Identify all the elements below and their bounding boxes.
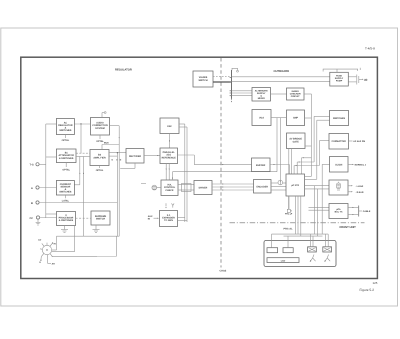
svg-text:AV BRIDGE: AV BRIDGE bbox=[289, 138, 302, 141]
box11 X-1 EXPANDER bbox=[160, 211, 178, 227]
rotary switch circle bbox=[40, 242, 53, 260]
svg-text:AF ALR PM: AF ALR PM bbox=[353, 140, 365, 143]
ground under C2 bbox=[36, 219, 41, 225]
wire buffer right elbow into uP top bbox=[270, 164, 289, 174]
wire enclosure vertical x117.4 bbox=[116, 153, 118, 237]
wire box14 down to uP right bbox=[291, 149, 293, 175]
box14 AV BRIDGE GATE bbox=[287, 133, 306, 149]
wire rotary long lower horizontal bbox=[52, 236, 117, 256]
wire vertical x81 bbox=[80, 124, 82, 153]
uP bottom wire to front bus 2 bbox=[297, 196, 299, 234]
svg-text:CONTROL: CONTROL bbox=[164, 186, 176, 189]
svg-text:AUDIO: AUDIO bbox=[96, 121, 104, 124]
bus vertical x317.7 bbox=[316, 120, 318, 179]
svg-text:REGULATOR: REGULATOR bbox=[58, 124, 73, 127]
junction dot bbox=[80, 123, 81, 124]
box10 VOL CONTROL CHECK bbox=[161, 180, 178, 196]
box9 PARALLEL ADJ REFERENCE bbox=[160, 148, 178, 164]
svg-text:EXPANDER: EXPANDER bbox=[162, 217, 175, 220]
uP bottom wire to front bus 1 bbox=[294, 196, 296, 234]
svg-text:T-4/5-8: T-4/5-8 bbox=[365, 46, 375, 50]
bus vertical x317.3 down to front bbox=[316, 189, 318, 236]
svg-text:RECTIFIER: RECTIFIER bbox=[129, 155, 141, 158]
svg-text:PARALLEL: PARALLEL bbox=[163, 151, 176, 154]
wire VGA to AMP bbox=[271, 117, 287, 119]
dashed wire box6 to box7 bbox=[76, 217, 92, 219]
wire B long horizontal bbox=[39, 202, 117, 204]
uP bottom wire to front bus 3 bbox=[300, 196, 302, 236]
svg-text:ALIGN: ALIGN bbox=[335, 163, 342, 166]
box20 ALTERNATE SUPPLY MIXER bbox=[252, 88, 271, 102]
svg-text:& SWITCHES: & SWITCHES bbox=[59, 157, 74, 160]
wire bus to box3 bbox=[46, 156, 57, 158]
speaker circle left of box10 bbox=[152, 185, 161, 190]
svg-text:AC: AC bbox=[64, 121, 68, 124]
svg-text:AMPL FIER: AMPL FIER bbox=[93, 156, 106, 159]
box13 AMP bbox=[287, 110, 305, 126]
box R3 ALIGN bbox=[330, 157, 349, 173]
small interconnect box between box10 and driver bbox=[182, 184, 192, 192]
svg-text:125: 125 bbox=[373, 281, 378, 285]
svg-text:SENSOR: SENSOR bbox=[61, 186, 71, 189]
box17 uP XTR bbox=[286, 174, 305, 196]
ground under box6 bbox=[61, 226, 68, 233]
svg-text:CIRCUIT: CIRCUIT bbox=[291, 95, 301, 98]
box3 B1 ATTENUATOR bbox=[56, 149, 76, 163]
svg-text:FRONT UNIT: FRONT UNIT bbox=[340, 226, 357, 229]
wire box21 right to bus bbox=[304, 93, 312, 95]
hook terminal above connector bbox=[232, 68, 238, 72]
svg-text:NORMAL J: NORMAL J bbox=[355, 164, 367, 167]
bus branch elbow 2 into uP top bbox=[297, 162, 314, 175]
wires encoder to uP bbox=[271, 183, 286, 190]
wire OSC right lower elbow bbox=[179, 127, 187, 222]
box R1 SWITCHES bbox=[330, 111, 349, 126]
uP right wire to bus v1 bbox=[305, 175, 312, 177]
dash-dot section divider bbox=[230, 222, 365, 224]
svg-text:BAL TX: BAL TX bbox=[335, 211, 343, 214]
wire box3 to box4 lower bbox=[76, 156, 90, 158]
bus vertical x320.5 bbox=[318, 141, 320, 166]
svg-text:OPTAL: OPTAL bbox=[62, 168, 70, 171]
front unit bus upper bbox=[272, 233, 329, 235]
svg-text:FORMATTER: FORMATTER bbox=[332, 140, 347, 143]
wire AMP right to bus bbox=[305, 117, 312, 119]
section divider dashed bbox=[220, 58, 222, 268]
wire box14 right to bus bbox=[305, 145, 312, 147]
svg-text:SWITCH: SWITCH bbox=[198, 79, 207, 82]
bus wire lower to fuse box bbox=[232, 80, 330, 82]
wire bus to box1 bbox=[46, 123, 57, 125]
svg-text:VOL: VOL bbox=[167, 183, 172, 186]
thick wire switch to connector bbox=[213, 81, 231, 83]
arrow on buffer wire at divider bbox=[222, 164, 224, 165]
wires connector to alternate supply bbox=[232, 91, 253, 96]
svg-text:CHAS: CHAS bbox=[220, 270, 227, 273]
wire enclosure vertical x119.2 bbox=[118, 126, 120, 237]
wire long horizontal to buffer bbox=[194, 164, 251, 166]
svg-text:CABLE: CABLE bbox=[363, 210, 371, 213]
bus vertical x314.5 bbox=[313, 116, 315, 162]
svg-text:BUFFER: BUFFER bbox=[256, 164, 266, 167]
bus wire upper to fuse box bbox=[232, 76, 330, 78]
box2 AUDIO CORRECTION SYSTEM bbox=[91, 118, 110, 136]
svg-text:DRIVER: DRIVER bbox=[199, 187, 208, 190]
svg-text:→ L.EAR: → L.EAR bbox=[354, 185, 364, 188]
box R5 uPA ADJ bbox=[329, 204, 348, 219]
wire A to box5 bbox=[39, 187, 56, 189]
R3 right wire and label bbox=[348, 164, 367, 167]
terminal B bbox=[31, 201, 39, 205]
wire box14 down to uP left bbox=[288, 149, 290, 175]
wire box8 bottom elbow bbox=[120, 163, 135, 168]
terminal circle above box2 bbox=[102, 112, 106, 118]
svg-text:HI: HI bbox=[54, 242, 57, 245]
wire box11 right upper bbox=[178, 217, 185, 219]
wire elbow to R3 bbox=[322, 164, 329, 234]
mic symbol under D bbox=[324, 255, 330, 262]
box7 SUPREME SWITCH bbox=[91, 211, 110, 225]
wire OSC right upper elbow bbox=[179, 124, 185, 222]
wire box2 right elbow bbox=[110, 126, 120, 139]
wire elbow to R1 lower bbox=[317, 119, 330, 121]
wire box9 down pair with arrows bbox=[166, 164, 170, 181]
wire bottom horizontal bbox=[57, 235, 120, 237]
svg-text:SYSTEM: SYSTEM bbox=[95, 127, 105, 130]
wire box11 right lower bbox=[178, 220, 188, 222]
svg-text:SWITCHES: SWITCHES bbox=[59, 191, 72, 194]
box3 stem and OPTAL label bbox=[62, 163, 70, 172]
svg-text:VGA: VGA bbox=[259, 116, 264, 119]
box21 MAINS CHECKER CIRCUIT bbox=[287, 88, 305, 100]
svg-text:AH: AH bbox=[52, 263, 56, 266]
svg-text:LATAL: LATAL bbox=[62, 199, 70, 202]
uP right wire to bus v3 bbox=[305, 178, 317, 180]
svg-text:LO: LO bbox=[38, 239, 41, 242]
box OSC bbox=[160, 118, 179, 134]
diagram frame bbox=[21, 57, 378, 278]
summing node circle bbox=[278, 180, 283, 185]
svg-text:OUTBOARD: OUTBOARD bbox=[274, 70, 290, 73]
wire rotary bottom AH bbox=[48, 255, 56, 266]
bracket over fuse box bbox=[323, 68, 360, 73]
svg-text:A: A bbox=[31, 187, 33, 190]
R2 right wire and label bbox=[349, 140, 366, 143]
front unit enclosure bbox=[264, 241, 336, 267]
wire box20 to box21 bbox=[271, 93, 287, 95]
svg-text:B: B bbox=[31, 202, 33, 205]
svg-text:AO: AO bbox=[364, 78, 367, 81]
svg-text:REFERENCE: REFERENCE bbox=[162, 156, 177, 159]
earphone symbol inside R4 bbox=[337, 182, 341, 190]
svg-text:ATTENUATOR: ATTENUATOR bbox=[58, 154, 74, 157]
svg-text:SWITCHES: SWITCHES bbox=[59, 129, 72, 132]
box4 stem and OPTAL label bbox=[96, 166, 104, 172]
wire box3 to box4 upper bbox=[76, 152, 90, 154]
box R4 earphone bbox=[329, 180, 348, 195]
svg-text:T-G: T-G bbox=[30, 164, 34, 167]
svg-text:TO GEN: TO GEN bbox=[164, 219, 173, 222]
wire box1 to box2 bbox=[74, 123, 90, 125]
dashed wire switch to connector bbox=[213, 75, 231, 77]
terminal C2 bbox=[30, 216, 40, 220]
svg-text:SWITCHES: SWITCHES bbox=[333, 117, 346, 120]
fuse supply pump box bbox=[330, 72, 349, 86]
svg-text:µP XTR: µP XTR bbox=[291, 184, 299, 187]
wire left bus vertical bbox=[45, 124, 47, 218]
svg-text:OPTAL: OPTAL bbox=[62, 139, 70, 142]
arrows above box11 bbox=[166, 203, 175, 208]
wire C2 to box6 bbox=[40, 217, 57, 219]
box15 BUFFER bbox=[252, 158, 271, 172]
box16 ENCODER bbox=[254, 180, 272, 194]
wires uP to R4 left bbox=[305, 186, 330, 189]
R4 right wire L.EAR bbox=[348, 185, 364, 188]
tiny level labels right of box4 bbox=[112, 159, 122, 162]
front box A bbox=[267, 234, 278, 253]
wire box10 right to driver lower bbox=[178, 189, 194, 191]
wire box10 right to driver upper bbox=[178, 184, 194, 186]
wire from VGA row down into box10 top bbox=[172, 118, 277, 180]
bus branch elbow 1 into uP top bbox=[302, 157, 312, 174]
svg-text:AMP: AMP bbox=[293, 117, 299, 120]
wire rotary upper right to box6 leg bbox=[52, 251, 75, 253]
wire box4 right lower stub bbox=[109, 155, 117, 157]
front switch D bbox=[323, 234, 332, 252]
svg-text:Figure 5-2: Figure 5-2 bbox=[360, 288, 375, 292]
box5 stem and LATAL label bbox=[62, 195, 70, 202]
front unit bus lower bbox=[284, 235, 323, 237]
box6 X PROCESSOR bbox=[57, 212, 76, 226]
wires into R5 left bbox=[309, 208, 330, 211]
svg-text:REGULATOR: REGULATOR bbox=[115, 69, 132, 72]
uP bottom ground stub bbox=[287, 196, 291, 213]
svg-text:SWITCH: SWITCH bbox=[96, 218, 105, 221]
wire OSC down to box9 with arrow bbox=[169, 134, 170, 149]
svg-text:LCD: LCD bbox=[281, 259, 286, 262]
AUX IN label and arrow bbox=[148, 215, 159, 220]
svg-text:SUPREME: SUPREME bbox=[95, 215, 107, 218]
wire sum branch down bbox=[280, 118, 282, 181]
svg-text:PROCESSOR: PROCESSOR bbox=[59, 217, 74, 220]
box8 RECTIFIER bbox=[126, 149, 144, 164]
svg-text:→ R.EAR: → R.EAR bbox=[354, 191, 364, 194]
svg-text:CORRECTION: CORRECTION bbox=[92, 124, 108, 127]
box19 DRIVER bbox=[194, 181, 212, 195]
box1 stem and OPTAL label bbox=[62, 135, 70, 142]
svg-text:OPTAL: OPTAL bbox=[96, 169, 104, 172]
wire box9 right elbow to buffer line bbox=[178, 155, 195, 165]
front box B bbox=[283, 236, 293, 253]
fuse box output connector and arrow bbox=[349, 75, 368, 85]
box2 stem and OPTAL label bbox=[96, 135, 104, 143]
wire rotary right up to bottom bus bbox=[52, 236, 57, 250]
junction dot box4 wire bbox=[117, 152, 118, 153]
svg-text:ADJ: ADJ bbox=[166, 154, 171, 157]
box12 VGA bbox=[252, 110, 271, 126]
wire T-G to bus bbox=[39, 163, 46, 165]
ground under box7 bbox=[93, 225, 100, 232]
box4 top stub label bbox=[102, 142, 119, 150]
connector J1 bbox=[230, 70, 232, 103]
box1 AC REGULATOR bbox=[56, 119, 74, 135]
svg-text:PRC-AL: PRC-AL bbox=[284, 228, 294, 231]
svg-text:BUS: BUS bbox=[104, 142, 109, 145]
svg-text:ENCODER: ENCODER bbox=[256, 185, 268, 188]
svg-text:MIXER: MIXER bbox=[258, 97, 265, 100]
mic symbol under C bbox=[310, 255, 316, 262]
terminal A bbox=[31, 186, 39, 190]
bus vertical x314.6 down to front bbox=[314, 186, 316, 234]
svg-text:VALMIS: VALMIS bbox=[199, 76, 208, 79]
R5 right wires to cable bracket bbox=[348, 206, 362, 217]
box4 B2 AMPLIFIER bbox=[90, 150, 109, 166]
box VALMIS SWITCH bbox=[193, 71, 213, 87]
R4 right wire R.EAR bbox=[348, 191, 364, 194]
wire bus to box6 upper bbox=[46, 213, 57, 215]
bus vertical x311.5 bbox=[310, 94, 312, 176]
front LCD box bbox=[267, 258, 299, 263]
bus branch elbow 3 into uP top bbox=[294, 165, 319, 174]
svg-text:PRC µP: PRC µP bbox=[285, 213, 293, 216]
wire box8 to box9 with arrow bbox=[144, 155, 160, 156]
wire box4 right to box8 bbox=[109, 152, 126, 154]
wire elbow to R1 upper bbox=[314, 115, 329, 117]
svg-text:& SWITCHES: & SWITCHES bbox=[59, 219, 74, 222]
svg-text:CHECK: CHECK bbox=[165, 189, 174, 192]
svg-text:CURRENT: CURRENT bbox=[60, 183, 72, 186]
svg-text:PUMP: PUMP bbox=[336, 80, 343, 83]
wire vertical x83.5 bbox=[83, 157, 84, 237]
front switch C bbox=[308, 234, 317, 252]
wire box6 down vertical bbox=[74, 226, 76, 252]
terminal T-G bbox=[30, 163, 40, 167]
box R2 FORMATTER bbox=[329, 134, 349, 150]
wires driver to encoder with arrows bbox=[212, 184, 254, 191]
svg-text:GATE: GATE bbox=[293, 140, 300, 143]
tiny stub left of speaker circle bbox=[141, 183, 146, 185]
box5 CURRENT SENSOR bbox=[56, 181, 74, 196]
wire box5 right elbow up to box3 bbox=[74, 157, 80, 185]
svg-text:OSC: OSC bbox=[167, 125, 172, 128]
wire elbow to R2 bbox=[319, 140, 329, 142]
